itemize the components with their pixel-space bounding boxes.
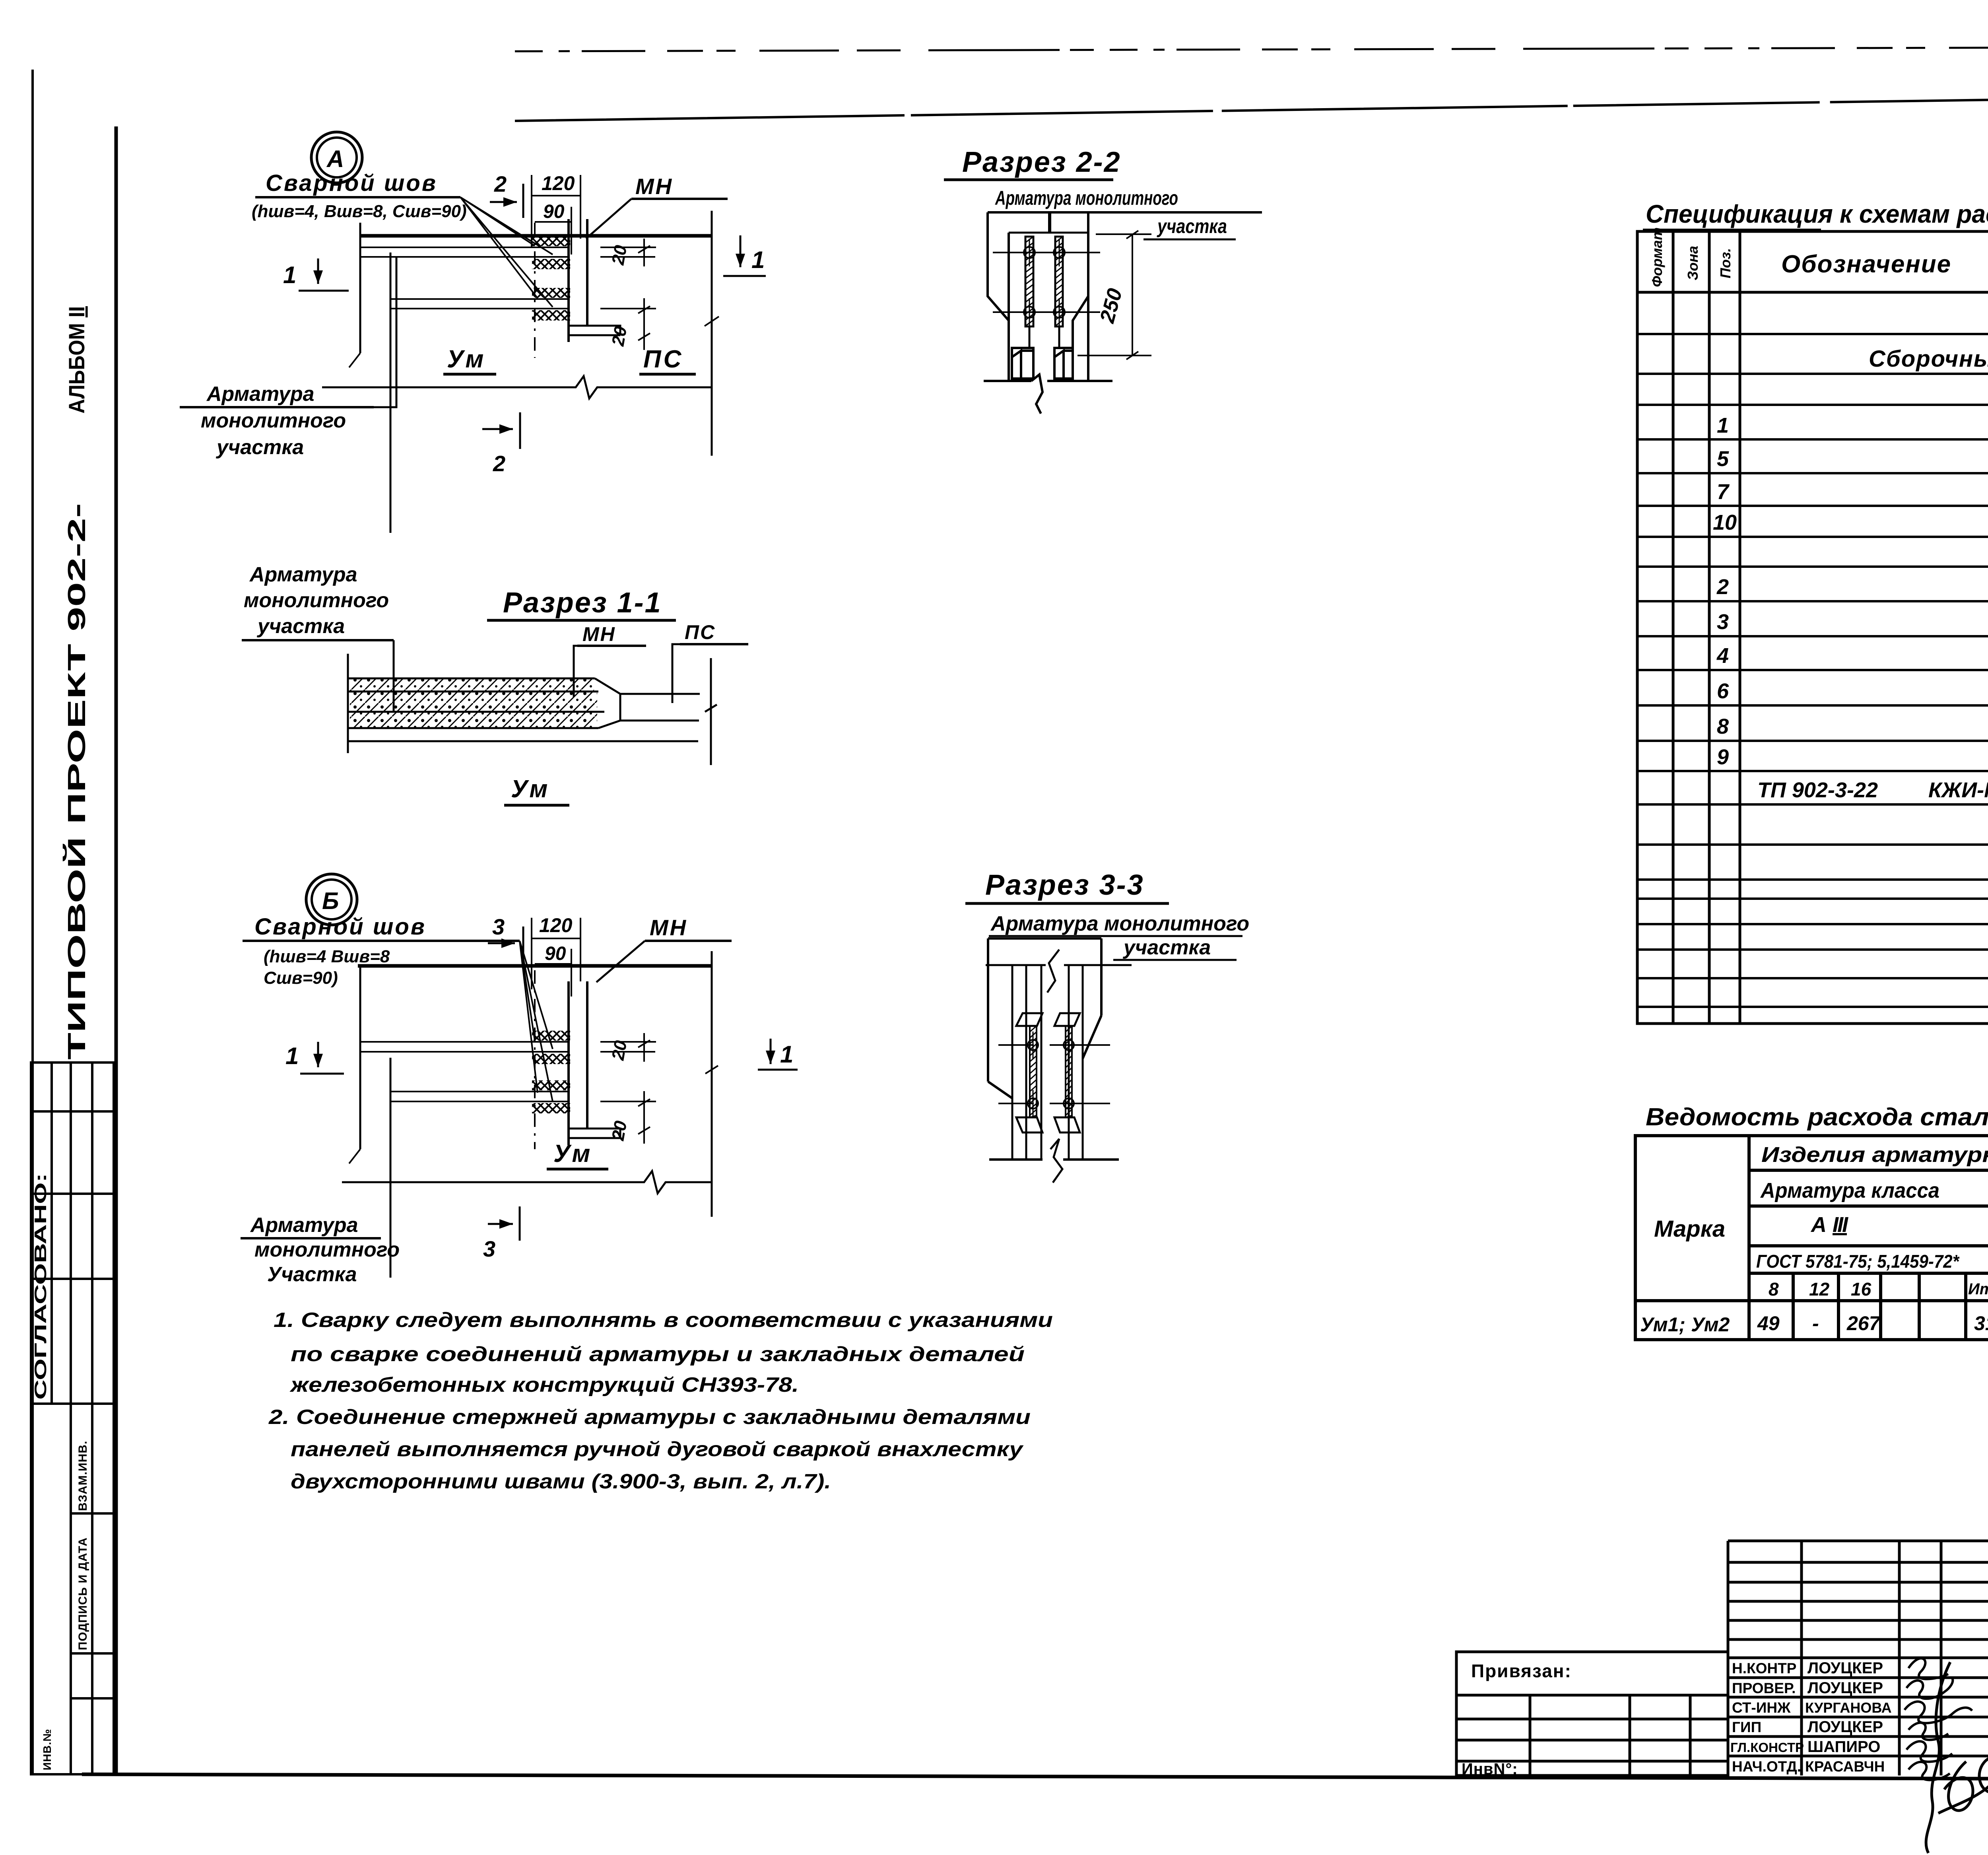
svg-text:ПС: ПС xyxy=(685,621,716,643)
svg-text:Формат: Формат xyxy=(1649,227,1665,287)
svg-text:Разрез 1-1: Разрез 1-1 xyxy=(503,587,662,619)
razrez 2-2 bottom line with break xyxy=(984,375,1112,414)
detail B upper rebar pair xyxy=(360,1042,569,1052)
svg-text:Привязан:: Привязан: xyxy=(1471,1661,1572,1681)
svg-text:Поз.: Поз. xyxy=(1717,248,1734,278)
svg-text:Марка: Марка xyxy=(1654,1216,1725,1242)
section 1-1 slab taper to panel xyxy=(595,678,700,728)
detail B right vertical xyxy=(711,951,713,1217)
spec table grid xyxy=(1637,231,1988,1024)
razrez 2-2 top line xyxy=(988,211,1262,214)
razrez 3-3 left plate xyxy=(1030,1026,1037,1117)
svg-text:2: 2 xyxy=(493,451,505,476)
svg-text:Арматура: Арматура xyxy=(250,1214,358,1237)
detail A marker circle xyxy=(311,132,362,183)
svg-text:СОГЛАСОВАНО:: СОГЛАСОВАНО: xyxy=(31,1173,50,1400)
razrez 3-3 top cap xyxy=(988,938,1101,1082)
vedomost grid xyxy=(1635,1136,1988,1340)
svg-text:Участка: Участка xyxy=(267,1263,357,1286)
frame bottom line xyxy=(82,1774,1988,1780)
svg-text:7: 7 xyxy=(1717,480,1730,504)
svg-text:5: 5 xyxy=(1717,447,1729,471)
detail B left panel edges xyxy=(360,966,390,1278)
svg-text:1: 1 xyxy=(1717,414,1729,437)
svg-text:1: 1 xyxy=(285,1043,299,1069)
razrez 3-3 panel verticals xyxy=(1012,965,1083,1160)
svg-text:Сварной шов: Сварной шов xyxy=(254,914,426,940)
razrez 2-2 left plate xyxy=(1025,237,1033,326)
svg-text:Сборочные единицы и детали: Сборочные единицы и детали xyxy=(1869,346,1988,372)
svg-text:панелей выполняется ручной: панелей выполняется ручной дуговой сварк… xyxy=(291,1438,1024,1461)
razrez 3-3 left plate caps xyxy=(1016,1013,1043,1132)
detail A lower rebar pair xyxy=(390,299,569,309)
svg-text:МН: МН xyxy=(635,174,673,199)
frame top line (broken scan) xyxy=(515,93,1988,121)
razrez 2-2 right outline xyxy=(1073,212,1088,381)
svg-text:Б: Б xyxy=(322,888,339,914)
svg-text:участка: участка xyxy=(1122,936,1211,959)
svg-text:ПОДПИСЬ И ДАТА: ПОДПИСЬ И ДАТА xyxy=(76,1537,89,1650)
svg-text:1: 1 xyxy=(283,262,296,288)
razrez 2-2 upper cross bar xyxy=(993,252,1100,253)
svg-text:монолитного: монолитного xyxy=(244,589,389,612)
detail A embedded plate MN xyxy=(569,219,587,342)
svg-text:МН: МН xyxy=(582,623,616,645)
detail A panel bottom line with break xyxy=(322,376,712,398)
razrez 3-3 top level line with break xyxy=(986,964,1132,966)
svg-text:монолитного: монолитного xyxy=(201,409,346,432)
svg-text:2: 2 xyxy=(1716,575,1729,599)
svg-text:3: 3 xyxy=(492,914,505,939)
razrez 3-3 right plate xyxy=(1066,1026,1072,1117)
title block staff grid xyxy=(1728,1541,1988,1775)
detail A weld leader fan xyxy=(460,197,553,307)
svg-text:Арматура монолитного: Арматура монолитного xyxy=(990,912,1249,935)
svg-text:20: 20 xyxy=(608,325,631,348)
razrez 2-2 dim 250 xyxy=(1077,231,1151,359)
svg-text:ГЛ.КОНСТР: ГЛ.КОНСТР xyxy=(1730,1740,1804,1755)
razrez 2-2 lower cross bar xyxy=(993,311,1100,313)
svg-text:20: 20 xyxy=(608,1119,631,1142)
svg-text:АЛЬБОМ II: АЛЬБОМ II xyxy=(64,306,89,414)
svg-text:10: 10 xyxy=(1713,511,1737,534)
detail B lower weld patch xyxy=(532,1080,570,1090)
razrez 2-2 panel lower stems xyxy=(1029,326,1059,348)
svg-text:участка: участка xyxy=(256,615,345,638)
detail A lower weld patch xyxy=(532,288,570,298)
svg-text:2: 2 xyxy=(494,171,507,196)
razrez 3-3 right plate caps xyxy=(1054,1013,1080,1132)
frame left line xyxy=(115,126,118,1775)
svg-text:12: 12 xyxy=(1809,1279,1830,1299)
section 1-1 panel right end xyxy=(705,658,717,765)
detail A upper weld patch xyxy=(532,236,570,246)
svg-text:двухсторонними швами (3.900-3: двухсторонними швами (3.900-3, вып. 2, л… xyxy=(291,1470,831,1493)
razrez 2-2 joint top tick xyxy=(1048,214,1051,233)
detail B plate bottom step xyxy=(569,1129,620,1138)
title block staff labels xyxy=(1730,1660,1804,1775)
svg-text:49: 49 xyxy=(1757,1312,1780,1334)
svg-text:монолитного: монолитного xyxy=(254,1238,400,1261)
top sheet dashed line xyxy=(515,47,1988,51)
svg-text:Арматура: Арматура xyxy=(206,383,315,406)
svg-text:Ум1; Ум2: Ум1; Ум2 xyxy=(1640,1313,1730,1336)
svg-text:3: 3 xyxy=(1717,610,1729,634)
sheet left edge line xyxy=(31,70,34,1774)
svg-text:ТП 902-3-22: ТП 902-3-22 xyxy=(1757,778,1878,802)
svg-text:Изделия арматурные: Изделия арматурные xyxy=(1761,1143,1988,1167)
svg-text:Арматура: Арматура xyxy=(249,563,357,586)
svg-text:(hшв=4, Вшв=8, Сшв=90): (hшв=4, Вшв=8, Сшв=90) xyxy=(252,202,467,221)
svg-text:Н.КОНТР: Н.КОНТР xyxy=(1732,1660,1796,1676)
svg-text:Обозначение: Обозначение xyxy=(1781,251,1951,278)
svg-text:1. Сварку следует выполнять: 1. Сварку следует выполнять в соответств… xyxy=(274,1309,1053,1332)
section 1-1 slab hatched bands xyxy=(348,678,698,741)
svg-text:8: 8 xyxy=(1769,1279,1779,1299)
svg-text:Ведомость расхода стали на: Ведомость расхода стали на монолитные уч… xyxy=(1646,1103,1988,1131)
svg-text:Разрез 3-3: Разрез 3-3 xyxy=(985,869,1144,901)
detail B upper weld patch xyxy=(532,1031,570,1041)
detail A upper rebar pair xyxy=(360,247,569,257)
svg-text:-: - xyxy=(1812,1312,1819,1334)
svg-text:Арматура класса: Арматура класса xyxy=(1760,1179,1939,1202)
detail B weld leader fan xyxy=(520,941,553,1101)
detail A plate bottom step xyxy=(569,326,620,335)
svg-text:ПС: ПС xyxy=(643,346,683,373)
svg-text:ВЗАМ.ИНВ.: ВЗАМ.ИНВ. xyxy=(76,1441,89,1511)
svg-text:Арматура монолитного: Арматура монолитного xyxy=(995,187,1178,209)
detail B panel edge dashed xyxy=(534,970,536,1149)
svg-text:Ум: Ум xyxy=(553,1140,592,1167)
detail B embedded plate MN xyxy=(569,981,587,1145)
svg-text:железобетонных конструкций С: железобетонных конструкций СН393-78. xyxy=(289,1373,799,1397)
svg-text:участка: участка xyxy=(1157,215,1227,237)
svg-text:3: 3 xyxy=(483,1236,495,1261)
approval strip box xyxy=(31,1062,114,1774)
svg-text:НАЧ.ОТД.: НАЧ.ОТД. xyxy=(1732,1758,1801,1775)
razrez 2-2 slab underside xyxy=(1009,232,1088,234)
razrez 3-3 lower cross bar xyxy=(998,1103,1110,1104)
svg-text:КЖИ-МН5: КЖИ-МН5 xyxy=(1928,778,1988,802)
svg-text:КРАСАВЧН: КРАСАВЧН xyxy=(1805,1758,1885,1775)
svg-text:Сшв=90): Сшв=90) xyxy=(264,968,338,988)
detail B panel top line xyxy=(358,964,712,968)
svg-text:120: 120 xyxy=(542,172,575,194)
svg-text:по сварке соединений арматур: по сварке соединений арматуры и закладны… xyxy=(291,1343,1025,1366)
svg-text:ЛОУЦКЕР: ЛОУЦКЕР xyxy=(1807,1718,1883,1736)
detail B lower rebar pair xyxy=(390,1092,569,1101)
detail A left panel edges xyxy=(360,223,390,533)
detail B panel bottom line with break xyxy=(342,1171,712,1193)
svg-text:Спецификация к схемам распо: Спецификация к схемам расположения армат… xyxy=(1646,200,1988,228)
svg-text:4: 4 xyxy=(1716,644,1729,668)
svg-text:(hшв=4 Вшв=8: (hшв=4 Вшв=8 xyxy=(264,947,390,966)
svg-text:1: 1 xyxy=(780,1041,793,1068)
svg-text:120: 120 xyxy=(539,914,573,936)
detail A panel edge dashed xyxy=(534,223,536,358)
svg-text:Сварной шов: Сварной шов xyxy=(266,170,437,196)
razrez 3-3 bottom line with break xyxy=(989,1158,1119,1161)
svg-text:16: 16 xyxy=(1851,1279,1872,1299)
razrez 3-3 upper cross bar xyxy=(998,1044,1110,1046)
svg-text:316: 316 xyxy=(1974,1312,1988,1334)
svg-text:ШАПИРО: ШАПИРО xyxy=(1807,1738,1880,1756)
svg-text:А: А xyxy=(326,146,344,172)
svg-text:Зона: Зона xyxy=(1685,246,1701,280)
svg-text:8: 8 xyxy=(1717,715,1729,738)
svg-text:Ум: Ум xyxy=(447,346,486,373)
svg-text:ГОСТ 5781-75; 5,1459-72*: ГОСТ 5781-75; 5,1459-72* xyxy=(1756,1251,1960,1272)
svg-text:9: 9 xyxy=(1717,745,1729,769)
detail A panel top line xyxy=(360,234,712,238)
svg-text:Итого: Итого xyxy=(1968,1280,1988,1298)
razrez 3-3 outer slants xyxy=(988,1016,1101,1098)
svg-text:Разрез 2-2: Разрез 2-2 xyxy=(962,146,1121,178)
razrez 2-2 left bottom cap xyxy=(1012,348,1033,379)
razrez 2-2 left outline xyxy=(988,212,1009,381)
svg-text:ГИП: ГИП xyxy=(1732,1719,1761,1735)
svg-text:СТ-ИНЖ: СТ-ИНЖ xyxy=(1732,1700,1791,1716)
svg-text:МН: МН xyxy=(650,915,687,940)
svg-text:ИнвN°:: ИнвN°: xyxy=(1462,1760,1518,1778)
svg-text:267: 267 xyxy=(1846,1312,1881,1334)
svg-text:6: 6 xyxy=(1717,679,1729,703)
title block privyazan box xyxy=(1456,1652,1728,1775)
svg-text:1: 1 xyxy=(751,247,765,273)
svg-text:90: 90 xyxy=(543,201,565,222)
svg-text:Ум: Ум xyxy=(511,775,550,803)
detail A break arrow on edge xyxy=(349,353,360,367)
title block staff names xyxy=(1805,1659,1892,1775)
svg-text:ЛОУЦКЕР: ЛОУЦКЕР xyxy=(1807,1679,1883,1697)
svg-text:участка: участка xyxy=(215,436,304,459)
svg-text:2. Соединение стержней армат: 2. Соединение стержней арматуры с заклад… xyxy=(268,1406,1031,1429)
section 1-1 left edge xyxy=(347,654,349,753)
svg-text:КУРГАНОВА: КУРГАНОВА xyxy=(1805,1700,1892,1716)
razrez 2-2 right bottom cap xyxy=(1054,348,1073,379)
svg-text:ЛОУЦКЕР: ЛОУЦКЕР xyxy=(1807,1659,1883,1677)
svg-text:ИНВ.№: ИНВ.№ xyxy=(41,1729,53,1770)
svg-text:ПРОВЕР.: ПРОВЕР. xyxy=(1732,1680,1796,1696)
detail A right vertical xyxy=(711,211,713,456)
detail B marker circle xyxy=(306,874,357,925)
svg-text:А III: А III xyxy=(1810,1213,1848,1237)
razrez 2-2 right plate xyxy=(1055,237,1063,326)
svg-text:ТИПОВОЙ ПРОЕКТ 902-2-: ТИПОВОЙ ПРОЕКТ 902-2- xyxy=(63,503,91,1060)
title block signatures xyxy=(1905,1658,1972,1780)
svg-text:90: 90 xyxy=(545,943,566,964)
